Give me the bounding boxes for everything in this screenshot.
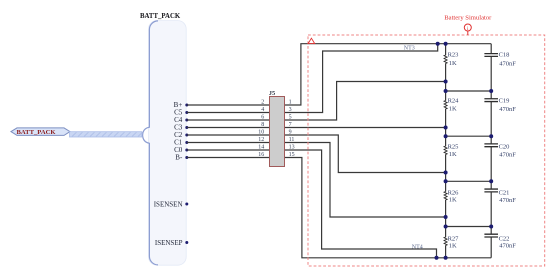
svg-text:ISENSEN: ISENSEN — [154, 200, 183, 208]
svg-text:C19: C19 — [499, 98, 510, 105]
svg-text:1K: 1K — [449, 242, 457, 249]
svg-text:9: 9 — [289, 130, 292, 136]
svg-text:C20: C20 — [499, 144, 510, 151]
svg-text:BATT_PACK: BATT_PACK — [17, 129, 57, 136]
svg-text:ISENSEP: ISENSEP — [155, 239, 183, 247]
svg-text:1K: 1K — [449, 60, 457, 67]
svg-text:BATT_PACK: BATT_PACK — [140, 13, 181, 20]
svg-text:1K: 1K — [449, 197, 457, 204]
svg-text:NT3: NT3 — [404, 45, 415, 51]
svg-text:C22: C22 — [499, 235, 510, 242]
svg-text:12: 12 — [258, 137, 264, 143]
svg-text:470nF: 470nF — [499, 152, 516, 159]
svg-text:4: 4 — [261, 107, 264, 113]
svg-text:7: 7 — [289, 122, 292, 128]
svg-text:1K: 1K — [449, 151, 457, 158]
svg-text:B-: B- — [175, 154, 183, 162]
svg-text:10: 10 — [258, 130, 264, 136]
svg-text:14: 14 — [258, 145, 264, 151]
svg-text:16: 16 — [258, 152, 264, 158]
svg-text:1K: 1K — [449, 106, 457, 113]
svg-text:NT4: NT4 — [412, 244, 423, 250]
svg-text:6: 6 — [261, 115, 264, 121]
svg-text:J5: J5 — [269, 90, 275, 97]
svg-text:R23: R23 — [448, 51, 459, 58]
svg-text:470nF: 470nF — [499, 197, 516, 204]
svg-text:C21: C21 — [499, 189, 510, 196]
svg-text:R25: R25 — [448, 143, 459, 150]
svg-text:C18: C18 — [499, 52, 510, 59]
svg-text:13: 13 — [289, 145, 295, 151]
svg-text:3: 3 — [289, 107, 292, 113]
svg-text:R24: R24 — [448, 97, 460, 104]
svg-text:470nF: 470nF — [499, 106, 516, 113]
svg-text:R26: R26 — [448, 189, 460, 196]
svg-text:5: 5 — [289, 115, 292, 121]
svg-text:15: 15 — [289, 152, 295, 158]
svg-text:Battery Simulator: Battery Simulator — [444, 14, 492, 21]
svg-text:1: 1 — [289, 100, 292, 106]
svg-text:470nF: 470nF — [499, 61, 516, 68]
svg-text:11: 11 — [289, 137, 295, 143]
svg-text:2: 2 — [261, 100, 264, 106]
svg-text:8: 8 — [261, 122, 264, 128]
svg-text:470nF: 470nF — [499, 243, 516, 250]
